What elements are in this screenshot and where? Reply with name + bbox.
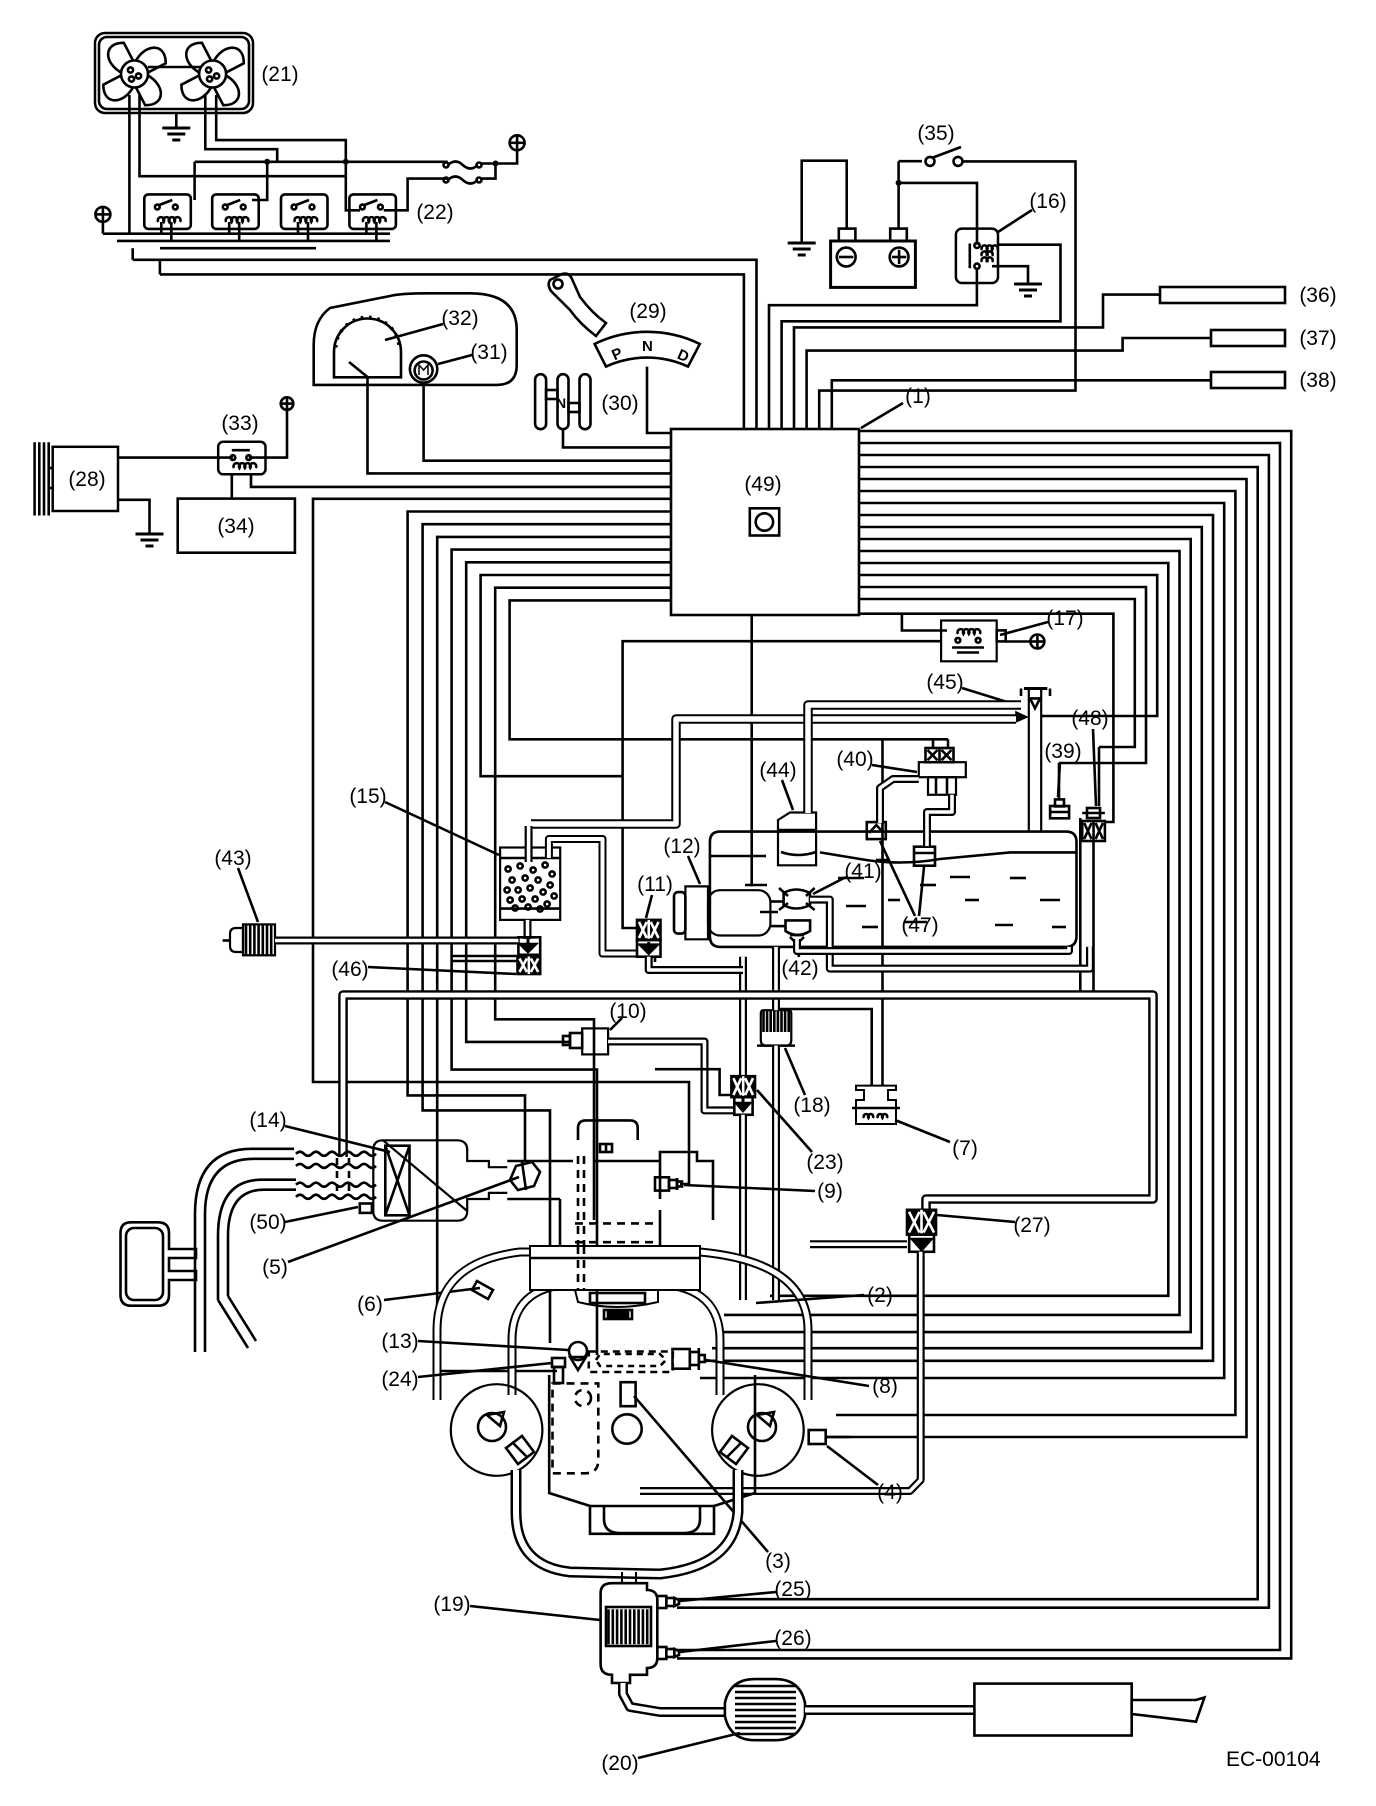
sensor 7 coil a xyxy=(864,1114,874,1118)
ecu right wire 2 to (25)b xyxy=(677,455,1269,1608)
relay17 coil feed xyxy=(902,614,947,631)
wire 46 left xyxy=(452,955,518,958)
ecu right wire 5 to engine right xyxy=(836,491,1235,1415)
cylinder dashed outline xyxy=(553,1383,599,1473)
ecu right wire 6 to (8) rail xyxy=(700,503,1224,1378)
ignition switch (35) xyxy=(926,147,963,166)
battery xyxy=(831,229,916,288)
connector (38) xyxy=(1211,372,1285,388)
selector letters xyxy=(609,338,691,366)
injector rail (8) xyxy=(589,1348,705,1372)
leader (9) xyxy=(684,1185,815,1191)
horn (28) xyxy=(35,442,118,515)
leader (25) xyxy=(680,1592,776,1601)
solenoid valve (40) body xyxy=(919,762,966,795)
svg-text:(27): (27) xyxy=(1013,1214,1050,1237)
ecu wire to (10) xyxy=(466,562,671,1042)
valve (46) funnel xyxy=(518,937,540,955)
ecu wire to (8) xyxy=(452,550,671,1355)
fuel tank xyxy=(710,832,1077,947)
wire speedometer to ecu xyxy=(368,377,672,473)
leader (47) b xyxy=(919,867,924,916)
valve (42) xyxy=(786,920,811,944)
fuel return pipe xyxy=(797,939,1069,951)
pipe M duct to 27 xyxy=(343,995,1153,1210)
ecu wire to (13) xyxy=(423,524,671,1343)
pressure sensor (7) xyxy=(852,1086,900,1124)
ecu wire to (9) xyxy=(313,499,689,1184)
left cp stem xyxy=(102,222,105,234)
pipe 10 right to 23 xyxy=(608,1042,734,1111)
relay 2 coil drop b xyxy=(238,222,241,241)
plenum body xyxy=(507,1152,713,1246)
fuel level line xyxy=(710,852,1077,862)
ecu right wire 1 to (26)a xyxy=(677,443,1280,1650)
svg-text:(38): (38) xyxy=(1299,369,1336,392)
leader (12) xyxy=(688,856,700,884)
leader (20) xyxy=(638,1733,740,1758)
relay17 coil xyxy=(958,629,981,634)
relay 1 coil drop xyxy=(160,222,163,234)
relay 3 coil drop b xyxy=(307,222,310,241)
leader (43) xyxy=(238,868,258,922)
fitting (6) xyxy=(472,1281,493,1299)
relay 2 coil drop xyxy=(228,222,231,234)
filler neck (45) xyxy=(1021,689,1050,832)
wire to (38) xyxy=(832,380,1211,429)
connector (43) xyxy=(230,924,275,955)
pipe into filter xyxy=(772,947,780,1010)
svg-text:(18): (18) xyxy=(793,1094,830,1117)
valve (27) funnel xyxy=(909,1235,934,1252)
svg-text:(31): (31) xyxy=(470,341,507,364)
pipe 40 to check valve a xyxy=(880,779,919,823)
leader (1) xyxy=(861,403,903,428)
sensor 7 coil b xyxy=(878,1114,888,1118)
canister pipe2 xyxy=(549,839,637,954)
wire to (36) xyxy=(794,295,1160,429)
svg-text:(19): (19) xyxy=(433,1593,470,1616)
leader (16) xyxy=(998,210,1032,232)
pipe 39 down xyxy=(1079,818,1082,993)
svg-text:(9): (9) xyxy=(817,1180,843,1203)
svg-text:(11): (11) xyxy=(637,873,673,896)
leader (19) xyxy=(470,1606,600,1620)
wire motor31 to ecu xyxy=(424,383,671,461)
svg-text:(21): (21) xyxy=(261,63,298,86)
selector lever (29) xyxy=(549,274,606,336)
fan2 wire b xyxy=(216,95,360,210)
wire (29) to ecu xyxy=(647,367,671,433)
dipstick (3) part xyxy=(621,1382,636,1406)
svg-text:(22): (22) xyxy=(416,201,453,224)
right pulley xyxy=(712,1384,804,1476)
battery positive wire xyxy=(897,161,900,228)
ECU box (1) xyxy=(671,429,859,615)
relay33 coil xyxy=(234,463,257,468)
fan1 wire b xyxy=(140,95,348,176)
ecu wire to (40)(7) xyxy=(510,600,948,739)
ecu right wire 4 to (4) xyxy=(827,479,1247,1437)
O2 sensor (26) xyxy=(657,1647,679,1659)
svg-text:(32): (32) xyxy=(441,307,478,330)
charcoal canister (15) xyxy=(500,848,560,920)
icon in ECU (49) xyxy=(750,508,779,535)
bus drop 2 xyxy=(159,260,162,275)
connector (37) xyxy=(1211,330,1285,346)
speedometer ticks xyxy=(334,316,400,347)
speedometer motor (31) xyxy=(410,355,437,382)
pipe 40 to check valve b xyxy=(927,795,952,846)
wire 46 left b xyxy=(452,960,518,963)
selector gauge (29) arc xyxy=(595,332,700,367)
hose corrugations xyxy=(296,1152,376,1199)
leader (41) xyxy=(813,877,846,894)
stub left of 43 xyxy=(223,939,230,942)
relay bus long upper xyxy=(133,260,757,429)
air temp sensor (5) xyxy=(510,1162,540,1190)
fuel cutoff valve (44) xyxy=(778,813,816,866)
wire (7) up xyxy=(881,739,884,1085)
cat matrix box xyxy=(606,1607,651,1646)
main relay (16) xyxy=(956,229,998,283)
solenoid (40) coils xyxy=(926,748,954,762)
ecu bottom corner wire xyxy=(859,614,1113,822)
relay33 to ecu xyxy=(251,474,671,487)
pump to 41 stub xyxy=(770,900,783,903)
pipe 23 down xyxy=(739,1115,747,1300)
relay1 pin stub xyxy=(193,162,196,200)
exhaust pipe resonator to muffler xyxy=(805,1705,974,1715)
leader (32) xyxy=(385,324,443,340)
svg-text:(13): (13) xyxy=(381,1330,418,1353)
leader (50) xyxy=(285,1207,358,1222)
svg-text:(44): (44) xyxy=(759,759,796,782)
wire (30) to ecu xyxy=(563,429,671,447)
engine block outline xyxy=(549,1375,755,1534)
leader (6) xyxy=(384,1288,480,1300)
relay 4 coil drop xyxy=(365,222,368,234)
valve (39) xyxy=(1050,799,1069,818)
battery feed symbol xyxy=(510,135,525,150)
leader (31) xyxy=(438,355,472,364)
leader (23) xyxy=(757,1090,812,1152)
svg-text:(30): (30) xyxy=(601,392,638,415)
solenoid (40) coil stub b xyxy=(947,739,950,748)
fan relay 3 coil xyxy=(295,217,318,222)
intake crossover arch outer xyxy=(437,1252,808,1400)
relay16 coil xyxy=(982,245,998,250)
speedometer gauge xyxy=(334,319,401,378)
leader (2) xyxy=(756,1295,864,1303)
ecu right wire 14 to (48) xyxy=(859,599,1135,747)
relay17 right wire xyxy=(1006,640,1031,643)
leader (7) xyxy=(895,1120,950,1142)
shift gate (30) xyxy=(535,374,590,429)
relay16 ground wire xyxy=(992,266,1028,274)
leader (5) xyxy=(288,1177,519,1262)
relay ground feed symbol xyxy=(95,207,110,222)
relay16 ground xyxy=(1014,274,1042,296)
relay bus long lower xyxy=(160,274,744,429)
ecu right wire 11 to (2) throttle xyxy=(770,563,1168,1296)
resonator hatching xyxy=(735,1686,796,1734)
pipe 44 to filler xyxy=(808,705,1021,813)
fan relay 4 (22) xyxy=(349,194,396,229)
fan1 wire a xyxy=(128,95,131,234)
leader (40) xyxy=(872,765,917,772)
intake inlet pipe xyxy=(195,1149,296,1352)
throttle body lump xyxy=(575,1290,658,1319)
ignition switch feed xyxy=(899,160,922,163)
leader (11) xyxy=(646,895,652,918)
svg-text:(49): (49) xyxy=(744,473,781,496)
leader (27) xyxy=(937,1215,1015,1222)
center circle xyxy=(612,1414,641,1443)
relay17 cp xyxy=(1030,635,1044,649)
relay 4 coil drop b xyxy=(375,222,378,241)
O2 sensor (25) xyxy=(657,1596,679,1608)
leader (13) xyxy=(418,1341,568,1350)
spark plug right xyxy=(720,1436,748,1464)
svg-text:(14): (14) xyxy=(249,1109,286,1132)
wire 4 stub xyxy=(826,1436,850,1439)
fan relay 4 coil xyxy=(363,217,386,222)
svg-text:(36): (36) xyxy=(1299,284,1336,307)
svg-text:(41): (41) xyxy=(844,860,881,883)
leader (47) a xyxy=(880,841,915,916)
relay bus 3 xyxy=(160,247,316,250)
ecu right wire 10 to inj e xyxy=(724,551,1180,1315)
relay33 feed xyxy=(281,397,294,410)
leader (26) xyxy=(680,1641,776,1652)
left pulley xyxy=(451,1384,543,1476)
svg-text:(35): (35) xyxy=(917,122,954,145)
fan relay 3 (22) xyxy=(281,194,328,229)
relay (17) xyxy=(941,621,1006,662)
ecu right wire 8 to inj c xyxy=(712,527,1202,1348)
fan relay 1 coil xyxy=(158,217,181,222)
relay bus 2 xyxy=(117,240,390,243)
pipe canister to filler vent xyxy=(531,719,1016,824)
battery negative wire xyxy=(802,161,847,233)
svg-text:(40): (40) xyxy=(836,748,873,771)
fuel pump (12) xyxy=(674,886,770,939)
fuel filter (18) xyxy=(757,1010,795,1045)
catalytic converter (19) xyxy=(601,1583,658,1683)
wire 7 second xyxy=(780,1009,872,1086)
svg-text:(48): (48) xyxy=(1071,707,1108,730)
svg-text:(20): (20) xyxy=(601,1752,638,1775)
main feed wire to fuse xyxy=(195,161,448,164)
relay bus 1 xyxy=(103,232,390,235)
leader (3) xyxy=(634,1396,768,1552)
svg-text:(4): (4) xyxy=(877,1481,903,1504)
svg-text:(12): (12) xyxy=(663,835,700,858)
leader (24) xyxy=(418,1363,552,1377)
stem (48) xyxy=(1098,747,1101,806)
resonator chamber xyxy=(121,1222,197,1305)
relay16 out right xyxy=(782,245,1061,429)
ecu right wire 3 to (25)a xyxy=(677,467,1258,1599)
valve (23) funnel xyxy=(734,1097,752,1115)
ecu wire to (24) xyxy=(437,537,671,1371)
svg-text:(10): (10) xyxy=(609,1000,646,1023)
svg-text:EC-00104: EC-00104 xyxy=(1226,1748,1321,1771)
ecu right wire 9 to inj d xyxy=(718,539,1191,1332)
horn signal wire xyxy=(118,456,233,459)
connector hatching xyxy=(246,924,271,955)
cat hatching xyxy=(609,1609,648,1644)
branch at junction to relay2 xyxy=(252,162,267,200)
svg-text:(1): (1) xyxy=(905,385,931,408)
junction dot battery+ xyxy=(896,180,902,186)
control box (34) xyxy=(178,499,295,553)
valve (27) xyxy=(907,1210,936,1235)
pipe 11 down to 23 xyxy=(739,957,747,1076)
svg-text:(26): (26) xyxy=(774,1627,811,1650)
leader (46) xyxy=(368,967,516,974)
svg-text:(15): (15) xyxy=(349,785,386,808)
leader (17) xyxy=(1000,622,1048,635)
svg-text:(6): (6) xyxy=(357,1293,383,1316)
horn relay (33) xyxy=(218,442,265,475)
radiator fan assembly (21) xyxy=(95,33,253,113)
fuse to battery-plus wire xyxy=(481,150,517,164)
wire ecu to pump xyxy=(750,615,753,886)
bus drop 1 xyxy=(131,248,134,260)
wire to 23 xyxy=(655,1069,731,1095)
relay16 coil2 xyxy=(982,251,993,262)
pipe 43 to 46 xyxy=(275,937,518,945)
valve (48) body xyxy=(1082,821,1105,841)
intake runner arch inner xyxy=(512,1284,720,1395)
leader (15) xyxy=(385,802,499,855)
pipe 27 left xyxy=(810,1240,907,1248)
lower fuse wire xyxy=(384,179,448,211)
junction dot c xyxy=(493,161,499,167)
svg-text:(33): (33) xyxy=(221,412,258,435)
fuel supply pipe xyxy=(810,900,1090,969)
svg-text:(17): (17) xyxy=(1046,607,1083,630)
exhaust pipe cat to resonator xyxy=(623,1683,724,1712)
two-way valve (41) xyxy=(779,888,815,910)
tail pipe xyxy=(1132,1698,1205,1722)
valve (48) xyxy=(1082,808,1105,818)
svg-text:(47): (47) xyxy=(901,914,938,937)
sensor (9) xyxy=(655,1177,682,1190)
svg-text:(42): (42) xyxy=(781,957,818,980)
spark plug left xyxy=(506,1436,534,1464)
ecu right wire 12 to (45) top xyxy=(859,575,1157,716)
exhaust U pipe xyxy=(516,1470,738,1584)
fusible link upper xyxy=(448,162,478,169)
ecu right wire 13 to (39) xyxy=(859,587,1146,763)
svg-text:(3): (3) xyxy=(765,1550,791,1573)
relay33 to box34 xyxy=(231,474,234,498)
canister to 46 pipe xyxy=(524,920,532,939)
sensor (50) xyxy=(360,1204,372,1213)
canister pipe1 up xyxy=(525,826,533,862)
junction dot b xyxy=(343,159,349,165)
muffler xyxy=(974,1684,1131,1736)
knock sensor (13) xyxy=(569,1342,587,1370)
horn ground wire xyxy=(118,500,150,524)
svg-text:(43): (43) xyxy=(214,847,251,870)
fan ground wire xyxy=(175,113,178,118)
wire to (37) xyxy=(807,338,1211,429)
check valve (47) a xyxy=(867,822,886,839)
engine intake arch xyxy=(578,1120,638,1140)
canister granules xyxy=(505,862,557,911)
svg-text:(24): (24) xyxy=(381,1368,418,1391)
battery ground xyxy=(788,233,816,255)
svg-text:N: N xyxy=(642,338,653,355)
resonator inner xyxy=(126,1228,163,1300)
pipe 27 down xyxy=(640,1252,921,1491)
svg-text:(8): (8) xyxy=(872,1375,898,1398)
relay33 feed wire xyxy=(249,410,287,458)
filter hatching xyxy=(764,1010,789,1032)
fusible link lower xyxy=(448,177,478,184)
vent solenoid (11) xyxy=(637,920,661,940)
svg-text:(16): (16) xyxy=(1029,190,1066,213)
leader (8) xyxy=(706,1360,869,1386)
resonator (20) xyxy=(725,1679,805,1740)
pipe 11 bottom xyxy=(649,957,743,970)
fan relay 2 coil xyxy=(226,217,249,222)
svg-text:(23): (23) xyxy=(806,1151,843,1174)
junction dot a xyxy=(264,159,270,165)
svg-text:(25): (25) xyxy=(774,1578,811,1601)
throttle cable part xyxy=(600,1144,612,1152)
horn ground xyxy=(136,524,164,546)
relay16 bottom pin wire xyxy=(769,270,977,429)
pipe 48 down xyxy=(1092,841,1095,999)
leader (48) xyxy=(1093,729,1096,806)
ecu wire to (5) xyxy=(408,512,671,1163)
check valve (47) b xyxy=(914,847,935,866)
sensor (24) xyxy=(552,1358,565,1383)
relay 3 coil drop xyxy=(297,222,300,234)
sensor (10) xyxy=(563,1028,608,1054)
ecu right wire 0 to (26)b xyxy=(677,431,1291,1658)
oil switch (4) xyxy=(809,1430,826,1444)
filler arrow xyxy=(1015,711,1029,723)
solenoid (40) coil stubs xyxy=(932,739,935,748)
fan2 wire a xyxy=(205,95,277,162)
leader (45) xyxy=(962,688,1020,706)
pipe 11 to down link xyxy=(654,957,657,962)
svg-text:(46): (46) xyxy=(331,958,368,981)
leader (18) xyxy=(785,1048,805,1095)
relay 1 coil drop b xyxy=(170,222,173,241)
svg-text:(7): (7) xyxy=(952,1137,978,1160)
svg-text:(39): (39) xyxy=(1044,740,1081,763)
instrument cluster (32) outline xyxy=(314,293,517,385)
leader (10) xyxy=(610,1018,622,1030)
svg-text:(50): (50) xyxy=(249,1211,286,1234)
svg-text:N: N xyxy=(556,395,566,411)
fan relay 1 (22) xyxy=(144,194,191,229)
svg-text:(37): (37) xyxy=(1299,327,1336,350)
plenum lower box xyxy=(530,1246,700,1290)
switch output wire xyxy=(819,161,1075,429)
connector (36) xyxy=(1160,287,1285,303)
pipe filter down xyxy=(772,1046,780,1300)
air cleaner (14) xyxy=(373,1140,507,1220)
svg-text:(2): (2) xyxy=(867,1284,893,1307)
